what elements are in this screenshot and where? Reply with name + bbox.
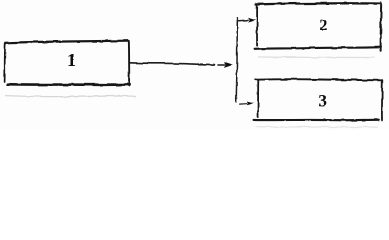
block 2 — [255, 2, 382, 51]
wire branch bottom — [240, 103, 247, 105]
svg-text:3: 3 — [318, 91, 327, 111]
block 3 — [254, 79, 383, 120]
arrowhead bottom — [247, 101, 253, 105]
node splitter vertical — [235, 18, 237, 102]
svg-text:2: 2 — [319, 17, 327, 34]
wire branch top — [239, 19, 248, 21]
shadow under block 1 — [5, 96, 136, 97]
arrowhead main — [219, 62, 233, 68]
shadow under block 3 — [256, 126, 378, 129]
block 1 — [5, 41, 130, 86]
svg-text:1: 1 — [67, 50, 76, 70]
arrowhead top — [248, 18, 256, 23]
wire main — [130, 63, 215, 65]
shadow under block 2 — [258, 56, 375, 59]
